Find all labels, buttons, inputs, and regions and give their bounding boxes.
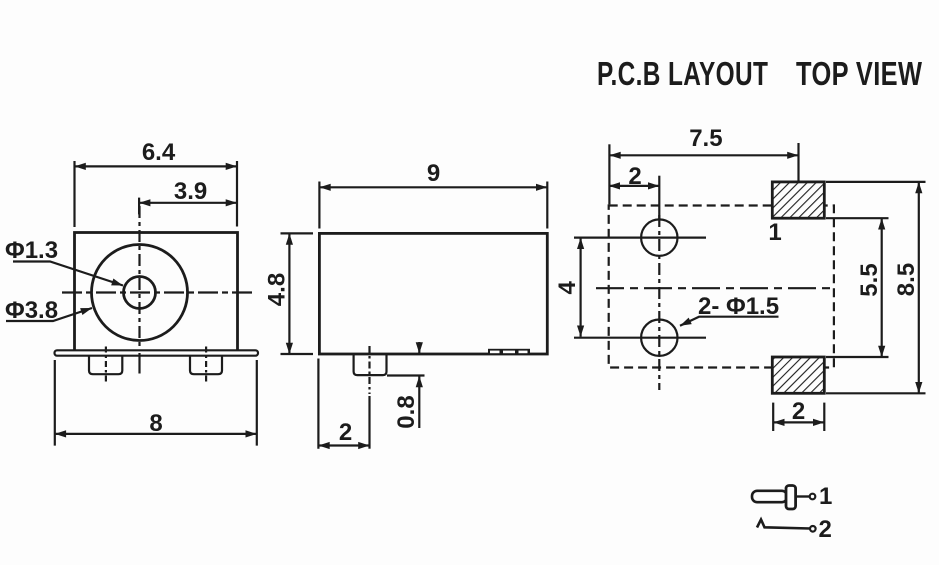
label phi3.8 leader [6,308,92,321]
pcb layout: hole 2 horizontal centerline [574,337,706,339]
legend pin 1: contact plate [786,486,796,510]
pcb layout: hole 1 circle [641,219,677,255]
legend pin 1: barrel [752,491,787,502]
front view: mounting flange [55,350,259,355]
side view leg center extension [368,396,370,449]
label 2-phi1.5 leader [680,317,779,326]
svg-text:2: 2 [339,419,352,446]
dimension 4.8 line [288,233,290,354]
dimension 8 line [55,433,257,435]
dimension 3.9 line [139,202,237,204]
pcb layout: pad 1 hatched [772,182,824,218]
svg-text:Φ3.8: Φ3.8 [5,297,58,324]
dimension 9 extension lines [319,182,547,229]
side view: body [319,233,547,354]
side view dimension 2 line [318,444,369,446]
front view: left leg centerline [105,347,107,384]
svg-text:8.5: 8.5 [893,263,920,296]
svg-text:6.4: 6.4 [142,139,176,166]
side view: leg centerline [368,346,370,394]
pcb layout: hole 1 horizontal centerline [574,237,706,239]
svg-text:Φ1.3: Φ1.3 [5,237,58,264]
front view: right solder leg [190,356,222,374]
svg-text:2: 2 [792,398,805,425]
dimension 0.8 lower arrow line [418,376,420,428]
title text [597,56,922,93]
svg-text:1: 1 [768,219,781,246]
pcb layout: pad 2 hatched [772,357,824,393]
svg-text:TOP VIEW: TOP VIEW [796,56,922,93]
svg-text:3.9: 3.9 [174,178,207,205]
front view: connector body J1 [75,233,238,352]
svg-text:P.C.B LAYOUT: P.C.B LAYOUT [597,57,768,93]
front view: vertical centerline [138,206,140,350]
pcb layout: hole 2 circle [641,320,677,356]
pcb dimension 2 bottom extension lines [773,403,824,431]
dimension 4.8 extension lines [281,233,314,354]
pcb dimension 2 top extension line [658,176,660,220]
dimension 4 line [579,238,581,337]
legend pin 2: terminal circle [810,526,816,532]
dimension 8.5 extension lines [826,182,926,393]
dimension 3.9 extension line [138,198,140,215]
svg-text:2- Φ1.5: 2- Φ1.5 [698,293,779,320]
dimension 6.4 extension lines [75,161,238,227]
front view: inner pin hole circle (1.3) [124,277,156,309]
dimension 0.8 upper arrow [418,342,420,354]
front view: horizontal centerline [62,291,252,293]
dimension 9 line [319,186,547,188]
svg-text:4.8: 4.8 [263,273,290,306]
svg-text:5.5: 5.5 [856,263,883,296]
dimension 5.5 extension lines [826,218,889,357]
label phi1.3 leader [13,262,123,286]
svg-text:1: 1 [819,483,832,510]
pcb layout: horizontal mid centerline [596,287,834,289]
legend pin 1: wire [796,495,810,497]
legend pin 1: terminal circle [810,494,816,500]
svg-text:4: 4 [554,280,581,294]
svg-text:2: 2 [628,163,641,190]
pcb layout: courtyard dashed rectangle [609,206,834,368]
dimension 8 extension lines [55,360,257,446]
legend pin 2: spring contact wire [757,520,810,529]
svg-text:2: 2 [819,516,832,543]
front view: left solder leg [89,356,122,374]
side view dimension 2 extension line [317,359,319,449]
dimension 6.4 line [75,165,238,167]
dimension 7.5 extension lines [609,143,798,204]
pcb dimension 2 bottom line [773,421,824,423]
front view: outer barrel circle (3.8) [92,245,188,341]
svg-text:7.5: 7.5 [689,125,722,152]
dimension 0.8 extension line [387,374,425,376]
dimension 8.5 line [918,182,920,393]
pcb layout: vertical centerline through holes [658,215,660,390]
side view: solder leg [354,355,387,375]
dimension 7.5 line [609,154,798,156]
svg-text:0.8: 0.8 [393,395,420,428]
svg-text:9: 9 [427,160,440,187]
pcb dimension 2 top line [609,185,660,187]
front view: right leg centerline [205,347,207,384]
side view: bottom tab detail [488,349,530,355]
svg-text:8: 8 [149,410,162,437]
dimension 5.5 line [881,218,883,357]
